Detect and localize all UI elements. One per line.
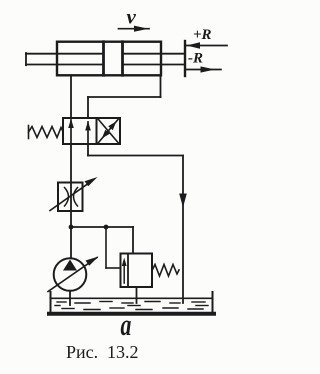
svg-text:Рис.: Рис.: [66, 342, 98, 362]
load bar: [184, 41, 186, 76]
wire: branch to relief valve inlet: [71, 227, 133, 253]
throttle valve (adjustable): [50, 177, 98, 211]
relief valve spring: [152, 265, 179, 277]
svg-text:-R: -R: [188, 51, 203, 67]
valve straight-flow arrows: [68, 119, 91, 144]
wire: valve to tank return: [88, 144, 183, 303]
force arrow -R: [187, 66, 222, 72]
wire: cylinder right port jog: [88, 75, 161, 118]
directional valve U1 outline: [63, 118, 120, 144]
relief valve body: [121, 254, 153, 288]
svg-text:+R: +R: [193, 27, 212, 43]
flow direction arrowhead on return line: [179, 194, 187, 208]
wire: pump suction to tank: [69, 291, 71, 305]
wire: throttle to junction and pump: [70, 211, 72, 258]
force arrow +R: [187, 42, 228, 48]
velocity arrow: [119, 26, 150, 32]
junction dot A: [69, 225, 74, 230]
svg-text:а: а: [121, 307, 132, 342]
wire: cylinder left port to valve: [70, 75, 72, 118]
piston rod right: [123, 54, 184, 65]
wire: valve to throttle: [70, 144, 72, 182]
wire: relief valve to tank: [136, 287, 138, 303]
valve crossed arrows: [99, 120, 119, 143]
tank: [49, 292, 214, 314]
svg-text:v: v: [127, 5, 137, 29]
pilot line to relief valve: [106, 227, 120, 268]
svg-text:13.2: 13.2: [107, 342, 139, 362]
pump (variable displacement): [48, 257, 99, 292]
junction dot B: [104, 225, 109, 230]
hydraulic cylinder body: [57, 42, 161, 76]
valve return spring: [29, 126, 64, 139]
piston: [104, 42, 123, 76]
tank liquid shading: [55, 302, 208, 310]
piston rod left: [26, 53, 103, 65]
